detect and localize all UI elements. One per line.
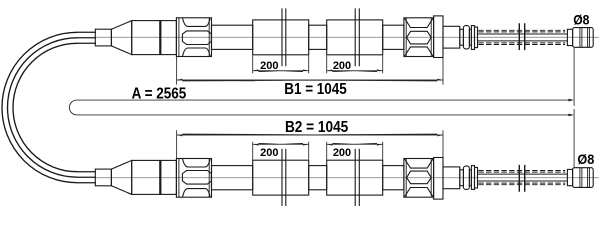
svg-text:200: 200 — [260, 60, 278, 72]
svg-text:200: 200 — [260, 147, 278, 159]
svg-text:B2 = 1045: B2 = 1045 — [285, 119, 348, 136]
svg-text:200: 200 — [333, 60, 351, 72]
bottom cable assembly (mirrored) — [77, 109, 599, 207]
wire loop inner arc — [13, 43, 77, 171]
wire loop middle arc — [8, 38, 78, 177]
svg-text:B1 = 1045: B1 = 1045 — [284, 81, 347, 98]
svg-text:A = 2565: A = 2565 — [132, 86, 187, 103]
wire loop outer arc — [2, 32, 77, 182]
dim A loop cap — [69, 100, 76, 115]
svg-text:200: 200 — [333, 147, 351, 159]
svg-text:Ø8: Ø8 — [573, 11, 589, 27]
svg-text:Ø8: Ø8 — [577, 151, 594, 167]
top cable assembly — [77, 8, 599, 106]
